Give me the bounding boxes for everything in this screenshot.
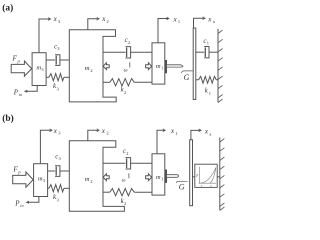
svg-text:1: 1 [178, 19, 180, 24]
svg-text:a: a [209, 131, 211, 136]
contact plate (b) [190, 140, 193, 206]
svg-text:1: 1 [175, 131, 177, 136]
svg-text:m: m [85, 65, 90, 72]
svg-text:ω: ω [122, 177, 126, 183]
mass m2 (C-shaped frame) [69, 30, 116, 102]
wire c2 to m1 (b) [131, 162, 152, 164]
damper c1 rod from plate [196, 51, 204, 53]
svg-text:1: 1 [162, 176, 164, 181]
mass m3 [32, 53, 46, 86]
damper c3 cylinder [55, 55, 60, 66]
spring k2 [103, 81, 110, 83]
svg-text:G: G [184, 73, 190, 82]
damper c3 (b) rod [48, 170, 56, 172]
wall hatching (a) [218, 30, 223, 102]
impactor head plate on m1 [165, 60, 166, 73]
damper c3 (rod m3 to cylinder) [46, 59, 55, 61]
axis x1 [158, 19, 169, 43]
svg-text:2: 2 [124, 90, 126, 95]
mass m1 [152, 43, 165, 84]
axis x3 (b) [40, 130, 51, 163]
mass m3 (b) [34, 164, 48, 197]
gap leader line (b) [176, 181, 187, 183]
mini plot x-axis [199, 182, 216, 184]
axis xa (b) [191, 130, 201, 139]
impactor lance rod (b) [167, 175, 179, 178]
wall hatching (b) [220, 139, 225, 211]
svg-text:G: G [179, 183, 185, 192]
svg-text:(b): (b) [2, 113, 13, 124]
spring k3 [46, 76, 49, 78]
svg-text:in: in [20, 203, 23, 208]
wire plate to nonlinear box (b) [193, 176, 195, 178]
contact arrow on m1 left side (b) [146, 174, 152, 181]
wire c3 to m2 (b) [60, 170, 69, 172]
axis x3 [39, 19, 50, 52]
gap leader line [181, 71, 193, 73]
wire c3 to m2 [60, 59, 69, 61]
contact arrow on m2 inner wall (b) [103, 174, 109, 181]
damper c1 cylinder [204, 47, 209, 58]
svg-text:1: 1 [162, 65, 164, 70]
svg-text:1: 1 [207, 41, 209, 46]
damper c2 (b) cylinder [126, 158, 131, 169]
contact arrow on m2 inner wall (points left) [103, 63, 109, 70]
svg-text:2: 2 [107, 19, 109, 24]
svg-text:in: in [19, 92, 22, 97]
svg-text:1: 1 [209, 91, 211, 96]
svg-text:2: 2 [106, 131, 108, 136]
svg-text:a: a [213, 19, 215, 24]
mini plot y-axis [198, 167, 200, 183]
mass m2 (b) C-shaped frame [69, 141, 124, 212]
fixed wall (b) [219, 137, 221, 210]
force arrow Fp (b) [13, 172, 34, 187]
output arrow Pin (bottom of m3) [27, 86, 37, 92]
svg-text:m: m [85, 176, 90, 183]
damper c2 rod from m2 inner wall [103, 51, 126, 53]
impactor head plate on m1 (b) [165, 170, 166, 183]
svg-text:ω: ω [124, 67, 128, 73]
svg-text:2: 2 [128, 40, 130, 45]
spring k1 [196, 79, 199, 81]
axis x2 [88, 19, 99, 30]
damper c3 (b) cylinder [55, 166, 60, 177]
svg-text:(a): (a) [2, 2, 13, 13]
svg-text:2: 2 [90, 179, 92, 184]
damper c2 (b) rod [103, 162, 126, 164]
axis x2 (b) [88, 130, 99, 141]
mass m1 (b) [152, 154, 165, 195]
mini plot curve 1 [201, 168, 216, 183]
svg-text:m: m [156, 63, 161, 70]
svg-text:2: 2 [90, 68, 92, 73]
mini plot curve 2 [210, 168, 216, 183]
svg-text:2: 2 [124, 201, 126, 206]
fixed wall (a) [217, 29, 219, 103]
force arrow Fp (block arrow into m3) [11, 61, 32, 76]
wire box to wall (b) [217, 176, 220, 178]
contact plate (a) [193, 28, 196, 99]
axis xa [194, 18, 205, 28]
impactor lance rod [167, 65, 183, 67]
svg-text:m: m [156, 174, 161, 181]
svg-text:2: 2 [126, 151, 128, 156]
spring k3 (b) [48, 187, 49, 189]
damper c2 cylinder [126, 47, 131, 58]
wire c2 to m1 [131, 51, 152, 53]
axis x1 (b) [157, 130, 165, 154]
contact arrow on m1 left side (points right) [146, 63, 152, 70]
wire c1 to wall [209, 51, 218, 53]
output arrow Pin (b) [29, 197, 39, 203]
nonlinear contact-force box (b) [195, 164, 217, 187]
spring k2 (b) [103, 191, 110, 193]
